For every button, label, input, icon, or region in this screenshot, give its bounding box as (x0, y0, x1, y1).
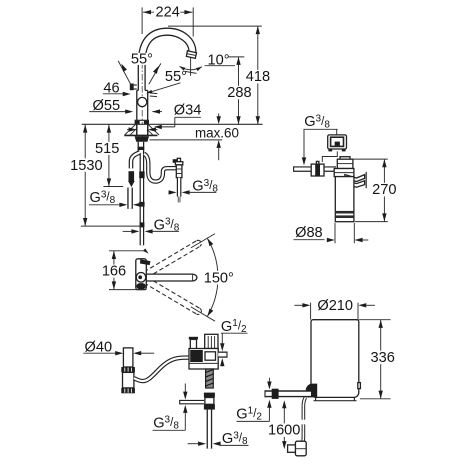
tank right latch (358, 383, 361, 389)
faucet body column (137, 90, 148, 135)
svg-text:270: 270 (372, 182, 396, 198)
svg-text:150°: 150° (204, 270, 234, 286)
riser tee fitting (204, 393, 215, 410)
faucet shank (138, 142, 143, 154)
valve outlet pipe (177, 178, 182, 203)
filter display head (328, 135, 347, 152)
dimension diameter 55 (89, 98, 162, 114)
escutcheon rosette ring (135, 120, 149, 124)
power cable lower (300, 424, 303, 444)
flexible riser hose hatched (206, 369, 214, 388)
center filtered-water hose (140, 153, 145, 245)
filter cartridge (335, 177, 354, 222)
filter inlet pipe (294, 166, 336, 172)
filter head body (334, 169, 354, 177)
dimension 55 degrees handle swing (118, 51, 161, 86)
dimension 515 (95, 125, 123, 187)
boiler tank (311, 320, 359, 398)
dimension 1530 (70, 125, 141, 227)
pipe union nut (272, 389, 279, 399)
swivel extension line lower (191, 307, 215, 321)
valve unit inlet port (205, 334, 218, 348)
valve outlet stub right (218, 352, 227, 358)
faucet spout inner arc (145, 35, 189, 63)
thread label G3/8 riser end (188, 430, 249, 447)
tailpiece body (123, 372, 134, 388)
dimension diameter 210 (294, 298, 375, 320)
thread label G1/2 valve (220, 318, 247, 366)
column counter white mask (137, 125, 148, 136)
dimension diameter 34 (154, 103, 202, 130)
swivel extension line upper (191, 234, 215, 248)
spout position lower dashed (144, 277, 201, 314)
svg-text:1600: 1600 (268, 423, 300, 439)
counter top line (82, 123, 263, 125)
connection hose to valve unit (134, 358, 189, 382)
valve unit body (189, 349, 218, 370)
svg-text:166: 166 (102, 264, 126, 280)
spout bar top view (146, 274, 197, 281)
power cable upper (303, 398, 305, 420)
dimension 10 degrees (178, 53, 235, 76)
power plug (288, 441, 307, 456)
escutcheon width arrows (127, 127, 158, 131)
dimension 224 (142, 4, 193, 36)
counter hatching right (148, 125, 159, 136)
supply pipe to tank (265, 390, 311, 397)
thread label G3/8 left (89, 189, 142, 207)
left supply hose (131, 152, 140, 168)
dimension diameter 40 (83, 340, 154, 356)
spout outlet mousseur cap (186, 51, 196, 59)
tailpiece top collar (121, 367, 135, 372)
filter head cap (337, 157, 353, 169)
dimension 270 (351, 159, 397, 222)
body ring joint (138, 97, 147, 106)
pivot circle (136, 273, 146, 283)
svg-text:418: 418 (246, 69, 270, 85)
dimension 418 (245, 26, 270, 124)
display cable (322, 151, 337, 162)
dimension 55 degrees lever leader (146, 69, 187, 95)
svg-text:1530: 1530 (70, 158, 102, 174)
tailpiece pipe (123, 348, 132, 367)
faucet neck column (138, 63, 145, 91)
svg-text:Ø210: Ø210 (317, 298, 353, 314)
dimension 336 (359, 320, 395, 399)
thread label G3/8 bottom (123, 217, 180, 234)
swivel arc 150 degrees (205, 237, 218, 317)
handle position ticks (150, 93, 158, 97)
handle top view (140, 259, 150, 265)
counter hatching left (125, 125, 137, 136)
inlet valve (311, 161, 324, 176)
svg-text:Ø34: Ø34 (174, 103, 202, 119)
svg-text:224: 224 (156, 5, 180, 21)
dimension max.60 (150, 114, 239, 161)
wall bracket (345, 172, 366, 188)
check valve body (173, 158, 183, 177)
thread label G3/8 filter inlet (302, 114, 338, 166)
thread label G3/8 stub (153, 384, 188, 432)
shank nut band (138, 147, 145, 150)
faucet body top view (136, 259, 147, 290)
escutcheon flange line (124, 134, 157, 136)
handle lever (130, 84, 137, 91)
riser lower pipe (207, 410, 213, 449)
tank inlet elbow (306, 384, 318, 398)
left connection pipe (127, 188, 133, 209)
valve unit top stub (189, 337, 198, 349)
dimension diameter 88 (294, 223, 369, 243)
tailpiece bottom collar (121, 388, 135, 393)
thread label G1/2 supply (236, 378, 271, 423)
left stub pipe (180, 400, 204, 405)
faucet spout outer arc (138, 28, 196, 63)
body centerline (141, 62, 143, 137)
svg-text:515: 515 (95, 141, 119, 157)
svg-text:336: 336 (371, 350, 395, 366)
mounting lock nut (135, 136, 149, 141)
tank base line (314, 397, 357, 400)
svg-text:55°: 55° (131, 51, 153, 67)
dimension 288 (227, 57, 252, 124)
svg-text:Ø88: Ø88 (295, 225, 323, 241)
thread label G3/8 right (169, 178, 219, 195)
svg-text:max.60: max.60 (195, 125, 239, 140)
left hose end fitting (128, 171, 135, 187)
body base dark cap (136, 283, 145, 289)
spout position upper dashed (144, 240, 201, 277)
center hose nuts (139, 171, 144, 227)
svg-text:55°: 55° (165, 69, 187, 85)
label 150 degrees (202, 270, 235, 286)
right hose S-curve to check valve (144, 154, 176, 182)
dimension 166 (102, 248, 150, 289)
outlet reference tick 288 (228, 56, 244, 58)
dimension 1600 (268, 400, 300, 449)
dimension 46 (103, 81, 131, 97)
spout top reference line (168, 25, 262, 27)
svg-text:288: 288 (227, 85, 251, 101)
